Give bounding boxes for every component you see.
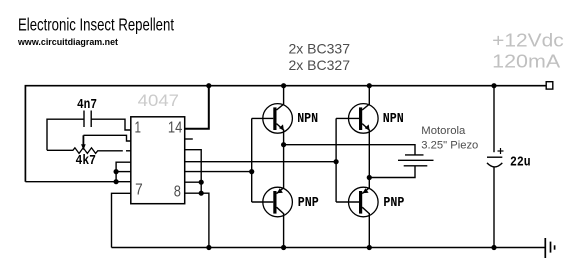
wire top rail to capacitor C2 [493,86,495,153]
wire IC right stub lower [185,181,202,183]
capacitor C1 4n7 [84,111,91,128]
node right tie A [199,180,204,185]
transistor Q1 NPN left [252,86,293,145]
resistor R1 4k7 zigzag [47,148,123,154]
svg-text:7: 7 [135,182,143,199]
wire IC left stub mid [116,171,131,173]
IC U1 4047 body [131,117,185,204]
capacitor C2 22u electrolytic [487,157,502,167]
node top rail pin14 [206,83,211,88]
svg-text:Motorola: Motorola [421,125,466,137]
svg-text:NPN: NPN [383,111,404,127]
wire C1 right to IC pin 1 [91,119,131,130]
wire top rail +12V [25,86,546,182]
wire C1 left to R1 left [47,119,84,150]
plus sign of C2 [498,148,504,154]
node top rail Q2 collector [367,83,372,88]
wire IC pin 14 to top rail [185,86,209,129]
wire right emitters to piezo bottom [369,166,415,178]
transistor Q4 PNP right [336,178,378,248]
node ground rail Q3 collector [281,245,286,250]
svg-text:4047: 4047 [138,91,179,110]
wire IC pin 7 to ground rail [112,193,131,247]
transistor Q3 PNP left [252,145,293,248]
node ground rail C2 [491,245,496,250]
node left tie A [114,169,119,174]
node ground rail pin8 [206,245,211,250]
svg-text:+12Vdc: +12Vdc [492,31,564,51]
wire left bases vertical [251,118,253,202]
terminal +12V input [546,82,553,89]
ground [545,238,554,258]
node right bases junction [334,159,339,164]
wire capacitor C2 to ground rail [493,167,495,248]
svg-text:3.25" Piezo: 3.25" Piezo [421,140,478,152]
svg-text:2x BC327: 2x BC327 [289,57,351,73]
wire left emitters to piezo top [284,145,415,155]
node right tie B [199,191,204,196]
node left tie B [114,179,119,184]
wire IC right stub to tie vertical [185,150,202,194]
pin stub IC right unconnected [185,138,193,140]
svg-text:4n7: 4n7 [77,97,97,113]
wire IC output Q to right pair bases [185,161,336,163]
wire right bases vertical [335,118,337,202]
svg-text:8: 8 [174,184,181,201]
pin stub resistor to IC pin 3 [126,150,131,152]
svg-text:PNP: PNP [383,195,404,211]
transistor Q2 NPN right [336,86,378,178]
svg-text:PNP: PNP [298,195,319,211]
node right emitters junction [367,175,372,180]
node top rail Q1 collector [281,83,286,88]
wire IC left stub top of tie group [116,162,131,182]
svg-text:1: 1 [135,120,142,137]
piezo transducer SP1 [398,155,434,166]
wire bottom rail ground [112,247,546,249]
svg-text:120mA: 120mA [492,52,560,72]
svg-text:NPN: NPN [297,111,318,127]
svg-text:2x BC337: 2x BC337 [289,41,351,57]
node ground rail Q4 collector [367,245,372,250]
svg-text:22u: 22u [510,155,531,171]
node top rail C2 [491,83,496,88]
svg-text:Electronic Insect Repellent: Electronic Insect Repellent [18,15,174,35]
node left emitters junction [281,142,286,147]
wire IC left tie to left rail [25,181,130,183]
svg-text:14: 14 [168,120,182,137]
svg-text:www.circuitdiagram.net: www.circuitdiagram.net [17,37,118,47]
wire wiper to IC pin 2 [83,135,130,141]
svg-text:4k7: 4k7 [76,153,97,169]
wire IC pin 8 to ground rail [185,193,209,247]
resistor wiper arrow [82,135,84,145]
wire IC output Qbar to left pair bases [185,171,252,173]
node left bases junction [249,169,254,174]
